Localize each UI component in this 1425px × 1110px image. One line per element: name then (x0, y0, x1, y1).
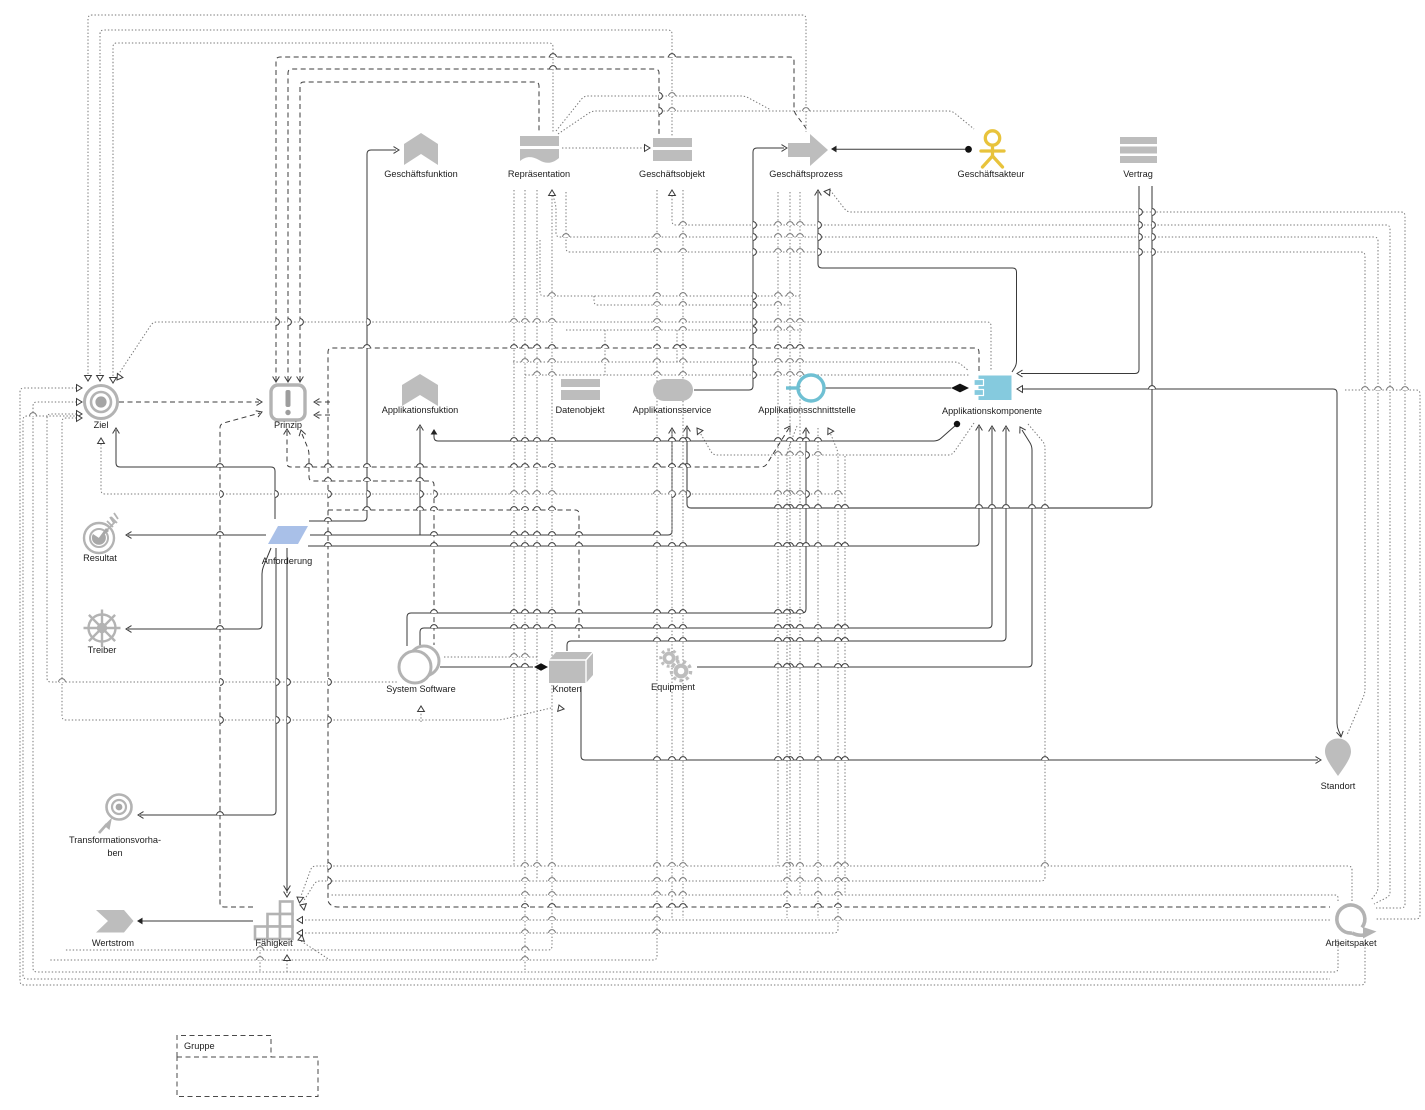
wire (671, 430, 673, 918)
junction dot Geschaeftsakteur assignment (965, 146, 972, 153)
node icon Knoten (549, 652, 593, 683)
arrowhead (1337, 731, 1344, 737)
svg-text:Geschäftsprozess: Geschäftsprozess (769, 169, 843, 179)
arrowhead (314, 399, 320, 406)
wire (62, 418, 551, 720)
diamond SystemSoftware-Knoten composition (534, 663, 548, 671)
arrowhead (297, 377, 304, 383)
wire (604, 330, 606, 375)
svg-text:Prinzip: Prinzip (274, 420, 302, 430)
wire (309, 150, 396, 521)
wire crossing hops (669, 54, 676, 57)
arrowhead (558, 705, 564, 711)
wire (101, 444, 845, 494)
wire (330, 895, 1338, 901)
wire (524, 190, 526, 972)
svg-text:Datenobjekt: Datenobjekt (555, 405, 604, 415)
arrowhead (824, 189, 830, 196)
arrowhead (284, 429, 291, 435)
arrowhead (669, 190, 676, 196)
wire (799, 192, 801, 895)
arrowhead (113, 428, 120, 434)
business actor icon Geschaeftsakteur (981, 131, 1004, 167)
wire (302, 434, 434, 645)
wire (818, 192, 1017, 372)
arrowhead (300, 904, 306, 910)
wire (20, 388, 1365, 985)
application interface icon Applikationsschnittstelle (786, 386, 798, 389)
wire (699, 423, 974, 455)
wire (305, 430, 838, 933)
arrowhead (273, 377, 280, 383)
wire (286, 548, 288, 893)
wire (128, 548, 271, 629)
wire (288, 69, 659, 381)
capability icon Faehigkeit (255, 902, 293, 940)
arrowhead (1003, 426, 1010, 432)
svg-text:Geschäftsobjekt: Geschäftsobjekt (639, 169, 705, 179)
arrowhead (297, 930, 303, 937)
arrowhead (126, 626, 132, 633)
wire (113, 43, 553, 376)
wire (830, 190, 1405, 908)
wire (787, 426, 797, 918)
arrowhead (394, 147, 400, 154)
wire (789, 192, 791, 880)
wire (328, 510, 579, 638)
svg-text:Treiber: Treiber (88, 645, 117, 655)
arrowhead (110, 378, 117, 384)
wire (118, 322, 991, 375)
application component icon Applikationskomponente (979, 376, 1012, 401)
wire (556, 96, 771, 131)
wire (47, 414, 397, 682)
wire (50, 190, 657, 960)
wire (88, 15, 806, 374)
svg-text:Anforderung: Anforderung (262, 556, 313, 566)
arrowhead (77, 411, 83, 418)
driver icon Treiber (84, 610, 121, 647)
wire (1345, 390, 1420, 919)
wire (301, 866, 1352, 901)
arrowhead (418, 706, 425, 712)
wire (138, 920, 253, 922)
svg-text:Knoten: Knoten (552, 684, 581, 694)
wire (676, 330, 678, 362)
wire (513, 362, 969, 371)
wire (128, 534, 266, 536)
work package icon Arbeitspaket (1337, 905, 1365, 933)
arrowhead (297, 917, 303, 924)
value stream icon Wertstrom (96, 910, 134, 933)
wire (552, 192, 1378, 900)
wire (562, 147, 645, 149)
wire (300, 82, 539, 381)
wire (833, 148, 966, 150)
arrowhead (97, 376, 104, 382)
wire (316, 401, 330, 403)
wire (444, 656, 537, 658)
arrowhead (989, 426, 996, 432)
wire (581, 686, 1318, 760)
wire (697, 430, 1032, 667)
arrowhead (1017, 386, 1023, 393)
wire (220, 413, 260, 907)
business function icon Geschaeftsfunktion (404, 133, 438, 165)
wire (33, 402, 1338, 972)
arrowhead (77, 415, 83, 422)
wire (420, 712, 422, 722)
arrowhead (284, 892, 291, 898)
arrowhead (314, 412, 320, 419)
wire (303, 424, 1045, 902)
arrowhead (831, 146, 837, 153)
wire (308, 427, 979, 546)
svg-text:ben: ben (107, 848, 122, 858)
wire (316, 414, 330, 416)
wire (419, 427, 421, 535)
svg-text:Fähigkeit: Fähigkeit (255, 938, 293, 948)
arrowhead (782, 145, 788, 152)
data object icon Datenobjekt (561, 379, 600, 387)
wire (287, 428, 789, 467)
wire (825, 387, 951, 389)
svg-text:Standort: Standort (1321, 781, 1356, 791)
application function icon Applikationsfuktion (402, 374, 438, 406)
wire (566, 192, 1365, 735)
arrowhead (298, 935, 304, 941)
svg-text:Repräsentation: Repräsentation (508, 169, 570, 179)
wire (23, 416, 1330, 979)
wire (513, 190, 515, 866)
arrowhead (697, 428, 703, 435)
arrowhead (784, 426, 790, 433)
arrowhead (431, 429, 438, 435)
svg-text:Applikationsschnittstelle: Applikationsschnittstelle (758, 405, 856, 415)
junction dot komponente assignment (954, 421, 960, 427)
arrowhead (138, 812, 144, 819)
contract icon Vertrag (1120, 137, 1157, 144)
outcome icon Resultat (84, 523, 114, 553)
wire (420, 428, 992, 646)
arrowhead (815, 190, 822, 196)
svg-text:Applikationsservice: Applikationsservice (633, 405, 712, 415)
wire (682, 190, 684, 918)
wire (310, 430, 672, 535)
wire (594, 296, 790, 305)
svg-text:Ziel: Ziel (94, 420, 109, 430)
wire (567, 428, 1006, 651)
business process icon Geschaeftsprozess (788, 134, 828, 166)
wire (286, 957, 288, 972)
arrowhead (285, 377, 292, 383)
arrowhead (549, 190, 556, 196)
application service icon Applikationsservice (653, 379, 693, 401)
arrowhead (284, 886, 291, 892)
wire (434, 425, 956, 441)
arrowhead (98, 438, 105, 444)
arrowhead (126, 532, 132, 539)
svg-text:Arbeitspaket: Arbeitspaket (1325, 938, 1377, 948)
equipment icon Equipment (661, 650, 691, 681)
arrowhead (828, 428, 834, 435)
arrowhead (297, 897, 304, 903)
wire (305, 919, 1330, 921)
arrowhead (299, 430, 306, 436)
svg-text:Geschäftsakteur: Geschäftsakteur (958, 169, 1025, 179)
arrowhead (1017, 370, 1023, 377)
wire (1023, 389, 1341, 736)
svg-text:Resultat: Resultat (83, 553, 117, 563)
diamond Schnittstelle-Komponente composition (951, 384, 969, 393)
representation icon Repraesentation (520, 136, 559, 146)
wire (440, 666, 533, 668)
location icon Standort (1325, 739, 1351, 777)
wire (116, 430, 275, 519)
system software icon System Software (409, 646, 439, 676)
wire (140, 548, 276, 815)
arrowhead (257, 399, 263, 406)
wire (672, 192, 1390, 904)
course of action icon Transformationsvorhaben (107, 795, 132, 820)
arrowhead (976, 425, 983, 431)
arrowhead (417, 425, 424, 431)
wire (100, 30, 672, 374)
wire (301, 941, 330, 960)
requirement icon Anforderung (268, 526, 308, 544)
wire (844, 456, 846, 895)
wire (536, 190, 538, 880)
wire (566, 329, 804, 331)
wire (328, 348, 1330, 907)
wire (777, 192, 779, 866)
arrowhead (77, 399, 83, 406)
wire (558, 111, 974, 134)
wire (1021, 186, 1139, 374)
wire (259, 942, 261, 972)
wire (276, 57, 806, 381)
svg-text:System Software: System Software (386, 684, 455, 694)
arrowhead (256, 411, 262, 417)
arrowhead (669, 428, 676, 434)
arrowhead (803, 428, 810, 434)
arrowhead (117, 374, 123, 381)
svg-text:Wertstrom: Wertstrom (92, 938, 135, 948)
arrowhead (684, 426, 691, 432)
svg-text:Equipment: Equipment (651, 682, 695, 692)
arrowhead (77, 385, 83, 392)
svg-text:Geschäftsfunktion: Geschäftsfunktion (384, 169, 458, 179)
svg-text:Applikationskomponente: Applikationskomponente (942, 406, 1042, 416)
svg-text:Gruppe: Gruppe (184, 1041, 215, 1051)
arrowhead (85, 376, 92, 382)
wire (525, 374, 969, 376)
wire (817, 428, 819, 918)
goal icon Ziel (85, 386, 118, 419)
arrowhead (645, 145, 651, 152)
principle icon Prinzip (271, 385, 305, 420)
wire (540, 240, 800, 296)
svg-text:Applikationsfuktion: Applikationsfuktion (382, 405, 459, 415)
wire (687, 186, 1152, 508)
svg-text:Transformationsvorha-: Transformationsvorha- (69, 835, 161, 845)
svg-text:Vertrag: Vertrag (1123, 169, 1153, 179)
arrowhead (137, 918, 143, 925)
wire (119, 401, 259, 403)
group Gruppe (177, 1036, 271, 1058)
wire (65, 192, 552, 950)
arrowhead (1316, 757, 1322, 764)
wire (407, 430, 806, 646)
arrowhead (284, 955, 291, 961)
business object icon Geschaeftsobjekt (653, 138, 692, 147)
arrowhead (1020, 427, 1026, 434)
wire (694, 148, 784, 390)
